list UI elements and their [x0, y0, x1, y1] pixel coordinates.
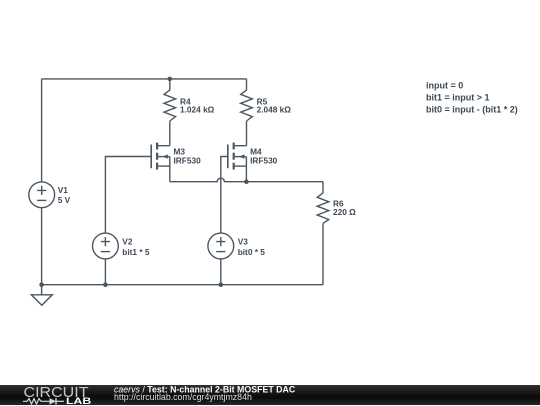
wire V2 to bottom rail: [104, 259, 106, 285]
wire V1 to ground: [41, 208, 43, 295]
logo circuit doodle: [23, 398, 64, 404]
svg-text:2.048 kΩ: 2.048 kΩ: [257, 105, 292, 115]
node R4 top junction: [168, 77, 173, 82]
voltage source V2: [93, 233, 119, 259]
node V3 bottom junction: [219, 282, 224, 287]
svg-text:bit0 * 5: bit0 * 5: [238, 247, 266, 257]
node M4 source junction: [244, 179, 249, 184]
wire V1 top to rail: [41, 79, 43, 182]
wire source rail with hop: [170, 178, 323, 182]
svg-text:http://circuitlab.com/cgr4ymtj: http://circuitlab.com/cgr4ymtjmz84h: [114, 391, 252, 401]
wire bottom rail: [42, 284, 323, 286]
node V2 bottom junction: [103, 282, 108, 287]
svg-text:IRF530: IRF530: [250, 155, 278, 165]
voltage source V1: [29, 182, 55, 208]
wire R5 to M4 drain: [246, 121, 248, 146]
transistor M3: [151, 143, 170, 182]
resistor R6: [317, 182, 329, 224]
wire V3 to bottom rail: [220, 259, 222, 285]
svg-text:5 V: 5 V: [58, 195, 71, 205]
wire R6 to bottom rail: [322, 223, 324, 284]
svg-text:IRF530: IRF530: [174, 155, 202, 165]
svg-text:bit1 = input > 1: bit1 = input > 1: [426, 93, 490, 103]
wire M3 gate to V2: [105, 157, 151, 234]
voltage source V3: [208, 233, 234, 259]
svg-text:bit1 * 5: bit1 * 5: [122, 247, 150, 257]
ground: [31, 295, 52, 306]
svg-text:bit0 = input - (bit1 * 2): bit0 = input - (bit1 * 2): [426, 105, 518, 115]
wire M4 gate to V3: [221, 157, 228, 234]
transistor M4: [228, 143, 247, 182]
node ground junction: [39, 282, 44, 287]
svg-text:LAB: LAB: [66, 396, 91, 406]
resistor R4: [164, 79, 176, 121]
svg-text:1.024 kΩ: 1.024 kΩ: [180, 105, 215, 115]
svg-text:220 Ω: 220 Ω: [333, 207, 356, 217]
wire top rail: [42, 78, 247, 80]
footer bar: [0, 385, 540, 406]
svg-text:input = 0: input = 0: [426, 80, 463, 90]
svg-text:V3: V3: [238, 237, 249, 247]
resistor R5: [241, 79, 253, 121]
svg-text:V2: V2: [122, 237, 133, 247]
svg-text:V1: V1: [58, 185, 69, 195]
wire R4 to M3 drain: [169, 121, 171, 146]
